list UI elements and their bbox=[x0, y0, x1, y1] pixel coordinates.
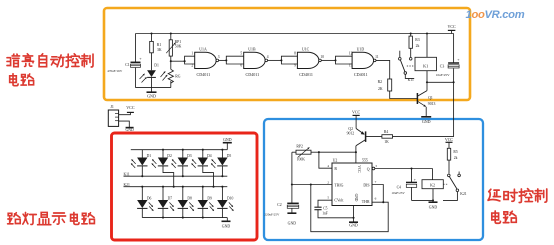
svg-text:2K: 2K bbox=[378, 87, 383, 91]
svg-text:THR: THR bbox=[362, 200, 370, 204]
ground GND (bottom of lamp matrix) bbox=[222, 218, 231, 229]
wire: bottom rail bbox=[136, 87, 171, 89]
photoresistor RG bbox=[161, 61, 181, 87]
svg-text:RP1: RP1 bbox=[175, 40, 182, 44]
logo 100VR.com bbox=[466, 9, 525, 21]
wire: J1 to VCC bbox=[119, 113, 131, 115]
capacitor C2 bbox=[264, 203, 298, 216]
wire: lamp anode top bus bbox=[131, 149, 228, 151]
nand gate U1A bbox=[191, 47, 219, 76]
svg-text:CD4011: CD4011 bbox=[197, 72, 211, 77]
ground GND (555) bbox=[349, 218, 358, 228]
svg-text:R3: R3 bbox=[415, 38, 420, 42]
svg-text:9: 9 bbox=[294, 64, 296, 68]
svg-text:VCC: VCC bbox=[126, 105, 135, 110]
LED D9 (bottom row) bbox=[198, 186, 214, 219]
potentiometer RP1 bbox=[166, 34, 181, 57]
svg-text:6: 6 bbox=[375, 197, 377, 201]
svg-text:1ooVR.com: 1ooVR.com bbox=[466, 9, 525, 21]
wire: CVolt pin to C5 bbox=[318, 200, 332, 207]
svg-text:10uF/25V: 10uF/25V bbox=[436, 73, 450, 77]
svg-text:TRIG: TRIG bbox=[334, 184, 343, 188]
node: sensor junction bbox=[170, 60, 172, 62]
svg-text:U1C: U1C bbox=[302, 47, 310, 51]
nand gate U1C bbox=[294, 47, 324, 76]
svg-text:CD4011: CD4011 bbox=[299, 72, 313, 77]
wire: down to pin R bbox=[319, 152, 332, 168]
svg-text:VCC: VCC bbox=[357, 165, 361, 173]
wire: U1A out to U1B bbox=[219, 59, 228, 61]
timer U2 (555) bbox=[327, 158, 377, 205]
svg-text:1: 1 bbox=[191, 52, 193, 56]
svg-text:DIS: DIS bbox=[363, 184, 369, 188]
LED D7 (bottom row) bbox=[158, 186, 174, 219]
capacitor C5 bbox=[314, 206, 327, 215]
svg-text:GND: GND bbox=[222, 224, 231, 228]
resistor R4 bbox=[382, 130, 393, 144]
svg-text:D7: D7 bbox=[168, 197, 173, 201]
power VCC (Q2 emitter) bbox=[352, 109, 361, 128]
svg-text:R5: R5 bbox=[453, 150, 457, 154]
svg-text:50K: 50K bbox=[175, 45, 182, 49]
svg-text:CD4011: CD4011 bbox=[354, 72, 368, 77]
svg-text:J1: J1 bbox=[110, 105, 114, 109]
svg-text:R4: R4 bbox=[384, 130, 388, 134]
svg-text:C1: C1 bbox=[125, 63, 130, 67]
wire: U1A input loop bbox=[185, 56, 195, 64]
svg-text:10uF/25V: 10uF/25V bbox=[391, 191, 405, 195]
connector J1 bbox=[108, 105, 118, 127]
node: collector/reset junction bbox=[355, 151, 357, 153]
power VCC (top right of rail) bbox=[447, 24, 456, 33]
svg-text:D1: D1 bbox=[147, 154, 152, 158]
svg-text:6: 6 bbox=[240, 64, 242, 68]
svg-text:GND: GND bbox=[422, 119, 431, 124]
svg-text:D3: D3 bbox=[187, 154, 192, 158]
svg-text:C5: C5 bbox=[323, 206, 327, 210]
svg-text:K11: K11 bbox=[408, 78, 414, 82]
wire: trig node vertical bbox=[291, 152, 293, 203]
svg-text:2: 2 bbox=[191, 64, 193, 68]
wire: U1D input loop bbox=[336, 56, 353, 64]
svg-text:RP2: RP2 bbox=[296, 145, 303, 149]
wire: DIS tie to THR bbox=[372, 185, 384, 204]
label: 路灯显示电路 (street lamp display circuit) bbox=[8, 212, 95, 224]
resistor R5 bbox=[447, 148, 458, 174]
nand gate U1D bbox=[349, 47, 379, 76]
svg-text:CD4011: CD4011 bbox=[246, 72, 260, 77]
svg-text:10: 10 bbox=[320, 55, 324, 59]
svg-text:C4: C4 bbox=[397, 185, 401, 189]
capacitor C3 bbox=[436, 34, 460, 83]
svg-text:9012: 9012 bbox=[347, 132, 355, 136]
wire: C1 to bottom rail bbox=[135, 68, 137, 88]
wire: 555 GND pin bbox=[352, 206, 354, 219]
svg-text:VCC: VCC bbox=[445, 137, 454, 142]
svg-text:K2: K2 bbox=[430, 183, 435, 188]
svg-text:U1B: U1B bbox=[248, 47, 256, 51]
svg-text:K21: K21 bbox=[124, 183, 131, 187]
svg-text:R2: R2 bbox=[378, 80, 383, 84]
capacitor C1 bbox=[107, 56, 142, 73]
svg-text:R1: R1 bbox=[157, 43, 162, 47]
svg-text:GND: GND bbox=[354, 194, 358, 202]
ground GND (top of lamp matrix) bbox=[223, 138, 232, 150]
ground GND (Q1 emitter) bbox=[421, 107, 431, 124]
svg-text:D9: D9 bbox=[207, 197, 212, 201]
wire: C5 to GND junction bbox=[318, 210, 354, 218]
svg-text:C2: C2 bbox=[277, 203, 282, 207]
label: 延时控制 (delay control) line 1 bbox=[488, 189, 547, 203]
LED D6 (bottom row) bbox=[137, 186, 153, 218]
svg-text:100K: 100K bbox=[297, 157, 306, 161]
wire: Q output line bbox=[375, 167, 433, 169]
svg-text:3K: 3K bbox=[157, 48, 162, 52]
wire: R1 to D1 bbox=[151, 53, 153, 71]
svg-text:1nF: 1nF bbox=[322, 212, 328, 216]
wire: R2 to Q1 base bbox=[390, 91, 418, 99]
svg-text:2: 2 bbox=[327, 180, 329, 184]
svg-text:U1A: U1A bbox=[199, 47, 207, 51]
wire: THR-TRIG feedback loop bbox=[311, 185, 388, 232]
transistor Q1 (9013) bbox=[417, 82, 435, 106]
ground GND (C2) bbox=[287, 213, 296, 225]
wire: Q2 collector to 555 VCC pin8 bbox=[355, 146, 357, 163]
svg-text:555: 555 bbox=[362, 158, 368, 162]
svg-text:3: 3 bbox=[375, 164, 377, 168]
svg-text:U1D: U1D bbox=[357, 47, 365, 51]
wire: left branch down to C1 bbox=[135, 34, 137, 63]
resistor R1 bbox=[150, 34, 162, 53]
wire: R4 to relay node (up through gap) bbox=[393, 82, 454, 136]
resistor R2 bbox=[378, 79, 392, 91]
wire: VCC top rail bbox=[136, 33, 454, 35]
node: K1/Q1/C3 junction bbox=[426, 81, 455, 83]
svg-text:5: 5 bbox=[240, 52, 242, 56]
wire: RP1 to sensor node bbox=[170, 56, 172, 61]
svg-text:Q2: Q2 bbox=[348, 127, 353, 131]
svg-text:11: 11 bbox=[375, 55, 379, 59]
ground GND (sensor divider) bbox=[147, 88, 157, 99]
wire: U1C out to U1D bbox=[321, 59, 336, 61]
555 output Q pin bubble bbox=[372, 167, 375, 170]
power VCC (R5) bbox=[445, 137, 454, 148]
svg-text:5: 5 bbox=[327, 195, 329, 199]
svg-text:8: 8 bbox=[294, 52, 296, 56]
wire: relay bus K11 bbox=[124, 172, 228, 176]
relay coil K2 bbox=[422, 169, 443, 202]
wire: D1 to bottom rail bbox=[151, 78, 153, 88]
svg-text:K21: K21 bbox=[460, 192, 467, 196]
svg-text:9013: 9013 bbox=[428, 102, 436, 106]
svg-text:D4: D4 bbox=[207, 154, 212, 158]
svg-text:RG: RG bbox=[175, 75, 181, 79]
nand gate U1B bbox=[240, 47, 268, 76]
ground GND (J1) bbox=[125, 128, 133, 133]
LED D3 (top row) bbox=[172, 149, 192, 178]
wire: RP2 right to reset rail bbox=[0, 0, 1, 1]
wire: U1B input loop bbox=[226, 56, 243, 64]
LED D5 (top row) bbox=[211, 149, 231, 178]
wire: U1B out to U1C bbox=[268, 59, 283, 61]
label: 暗亮自动控制 (dark/bright auto control) line 1 bbox=[7, 54, 93, 68]
wire: Q2 base to R4 bbox=[366, 135, 382, 137]
svg-text:13: 13 bbox=[349, 64, 353, 68]
svg-text:Q1: Q1 bbox=[428, 96, 433, 100]
transistor Q2 (9012) bbox=[347, 127, 366, 146]
svg-text:GND: GND bbox=[147, 94, 156, 99]
svg-text:220uF/25V: 220uF/25V bbox=[264, 212, 280, 216]
wire: U1C input loop bbox=[281, 56, 297, 64]
junction dots on top rail bbox=[150, 32, 171, 34]
svg-text:D8: D8 bbox=[187, 197, 192, 201]
svg-text:2k: 2k bbox=[416, 44, 420, 48]
svg-text:GND: GND bbox=[223, 138, 232, 142]
svg-text:GND: GND bbox=[125, 128, 133, 132]
svg-text:CVolt: CVolt bbox=[334, 199, 344, 203]
svg-text:K11: K11 bbox=[124, 172, 130, 176]
label: 电路 (circuit) line 2 right bbox=[492, 211, 516, 223]
label: 电路 (circuit) line 2 bbox=[10, 74, 34, 86]
svg-text:R: R bbox=[334, 167, 337, 171]
wire: C4 bottom to K2 gnd node bbox=[412, 199, 434, 201]
svg-text:K1: K1 bbox=[423, 63, 428, 68]
relay contact K11 bbox=[399, 51, 415, 82]
svg-text:D6: D6 bbox=[147, 197, 152, 201]
LED D4 (top row) bbox=[192, 149, 215, 188]
svg-text:D10: D10 bbox=[227, 197, 234, 201]
svg-text:470uF/16V: 470uF/16V bbox=[107, 69, 123, 73]
svg-text:12: 12 bbox=[349, 52, 353, 56]
svg-text:GND: GND bbox=[349, 224, 358, 228]
svg-text:+: + bbox=[414, 178, 416, 182]
svg-text:GND: GND bbox=[429, 206, 438, 210]
resistor R3 bbox=[409, 32, 420, 57]
svg-text:7: 7 bbox=[375, 180, 377, 184]
frame: dark/bright auto-control section (yellow) bbox=[104, 8, 470, 100]
wire: TRIG line bbox=[292, 183, 332, 185]
svg-text:VCC: VCC bbox=[447, 24, 456, 29]
svg-text:D5: D5 bbox=[227, 154, 232, 158]
svg-text:D2: D2 bbox=[167, 154, 172, 158]
photodiode D1 bbox=[140, 64, 160, 83]
LED D2 (top row) bbox=[152, 149, 175, 188]
svg-text:U2: U2 bbox=[333, 158, 338, 162]
LED D1 (top row) bbox=[131, 150, 151, 178]
wire: sensor node to U1A inputs bbox=[171, 60, 186, 62]
relay coil K1 bbox=[415, 32, 437, 82]
svg-text:Q: Q bbox=[367, 168, 370, 172]
relay contact K21 bbox=[443, 172, 467, 201]
svg-text:4: 4 bbox=[267, 55, 269, 59]
svg-text:2k: 2k bbox=[454, 156, 458, 160]
wire: lamp cathode bottom bus bbox=[142, 217, 227, 219]
svg-text:GND: GND bbox=[288, 221, 297, 225]
LED D8 (bottom row) bbox=[178, 186, 194, 219]
frame: delay control section (blue) bbox=[264, 119, 483, 240]
svg-text:1K: 1K bbox=[384, 140, 389, 144]
LED D10 (bottom row) bbox=[217, 186, 233, 218]
svg-text:C3: C3 bbox=[440, 64, 445, 68]
svg-text:4: 4 bbox=[327, 164, 329, 168]
capacitor C4 bbox=[391, 169, 417, 201]
svg-text:3: 3 bbox=[218, 55, 220, 59]
svg-text:D1: D1 bbox=[154, 64, 159, 68]
wire: J1 to GND bbox=[119, 121, 130, 127]
power VCC (J1) bbox=[126, 105, 135, 113]
wire: relay bus K21 bbox=[124, 183, 228, 187]
wire: reset rail bbox=[318, 151, 356, 153]
frame: street-lamp display section (red) bbox=[112, 133, 258, 240]
potentiometer RP2 bbox=[292, 145, 319, 162]
wire: U1D output to R2 bbox=[376, 60, 390, 79]
ground GND (K2/C4) bbox=[429, 200, 438, 209]
svg-text:VCC: VCC bbox=[352, 109, 361, 114]
